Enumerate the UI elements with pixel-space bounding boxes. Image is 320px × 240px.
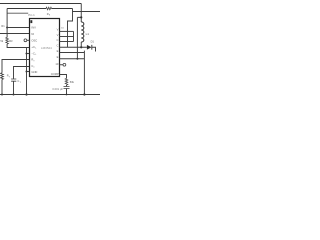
wire COMP resistor to cap <box>66 85 68 94</box>
wire OSC stub <box>27 39 30 41</box>
wire feedback line y52.6 <box>60 52 85 54</box>
resistor RT vertical lower-left <box>1 73 4 80</box>
wire faint line to IC top-left <box>7 12 28 14</box>
wire -CL stub <box>27 53 30 55</box>
svg-text:0.001 µF: 0.001 µF <box>52 87 63 91</box>
wire RT resistor to rail <box>1 79 3 94</box>
wire shutdown stub <box>60 64 63 66</box>
node inductor top junction <box>80 16 82 18</box>
svg-text:E: E <box>57 49 59 53</box>
IC pin labels left <box>31 26 37 74</box>
wire ground bus x26.4 <box>26 48 28 95</box>
wire inductor bottom lead <box>80 42 82 47</box>
svg-text:LM3524: LM3524 <box>41 46 52 50</box>
svg-text:INV: INV <box>31 26 36 30</box>
svg-text:D1: D1 <box>91 40 95 44</box>
diode D1 <box>87 45 92 50</box>
svg-text:V: V <box>57 27 59 31</box>
wire INV input <box>7 27 29 29</box>
node -CL junction <box>26 53 28 55</box>
svg-text:C: C <box>56 38 58 42</box>
node OSC terminal circle <box>24 39 27 42</box>
wire right pin stub y31.1 <box>60 30 74 32</box>
node ground rail junction x26.4 <box>25 93 27 95</box>
capacitor CT plates <box>11 79 16 81</box>
svg-text:Pin 1: Pin 1 <box>28 13 35 17</box>
svg-text:COMP: COMP <box>51 72 59 76</box>
wire switch node line y47 <box>60 46 87 48</box>
svg-text:50k: 50k <box>70 80 75 84</box>
wire GND stub <box>27 71 30 73</box>
node divider junction <box>6 27 8 29</box>
wire ground bottom rail <box>0 94 100 96</box>
svg-text:E: E <box>57 55 59 59</box>
capacitor COMP plates <box>64 87 70 89</box>
wire line y58.8 <box>60 58 85 60</box>
wire COMP stub <box>60 75 67 79</box>
IC pin labels right <box>51 27 59 76</box>
svg-text:NI: NI <box>31 32 34 36</box>
wire inductor top branch <box>77 4 81 59</box>
wire diode to output corner <box>92 47 96 51</box>
svg-text:C: C <box>56 43 58 47</box>
wire right pin stub y36.6 <box>60 36 74 38</box>
node GND junction <box>26 71 28 73</box>
wire second top rail <box>7 8 72 10</box>
node plus marker inside IC <box>30 20 32 23</box>
wire collector bus top corner <box>68 9 73 48</box>
resistor R1 vertical left <box>6 37 9 44</box>
svg-text:R1: R1 <box>1 24 5 28</box>
svg-text:GND: GND <box>31 70 37 74</box>
svg-text:OSC: OSC <box>31 38 37 42</box>
node rail junction comp <box>66 94 68 96</box>
resistor R2 series in top wire <box>46 7 51 10</box>
wire output cap branch x84.2 <box>83 51 85 95</box>
resistor COMP compensation <box>65 78 68 85</box>
node rail junction RT <box>1 94 3 96</box>
node shutdown terminal circle <box>63 63 66 66</box>
svg-text:V: V <box>57 33 59 37</box>
node rail junction CT <box>13 94 15 96</box>
wire CT cap to rail <box>13 81 15 94</box>
node junction x77.2 y58.8 <box>76 58 78 60</box>
node rail junction x84.2 <box>83 93 85 95</box>
svg-text:L1: L1 <box>86 32 90 36</box>
svg-text:R3: R3 <box>9 39 13 43</box>
wire right pin stub y41.6 <box>60 41 74 43</box>
wire R1 bottom to +CL line <box>7 44 29 47</box>
wire NI input <box>0 33 30 35</box>
wire output line right <box>73 11 101 13</box>
op-amp IC U1 LM3524 box <box>30 19 60 77</box>
wire top rail VIN <box>0 3 81 5</box>
svg-text:10: 10 <box>55 62 58 66</box>
wire RT line <box>2 60 30 73</box>
wire left vertical from top wire <box>6 9 8 38</box>
inductor L1 coil <box>81 22 84 42</box>
node inductor bottom junction <box>80 46 82 48</box>
wire inner bus x73.7 <box>73 31 75 41</box>
wire CT line <box>14 67 30 79</box>
